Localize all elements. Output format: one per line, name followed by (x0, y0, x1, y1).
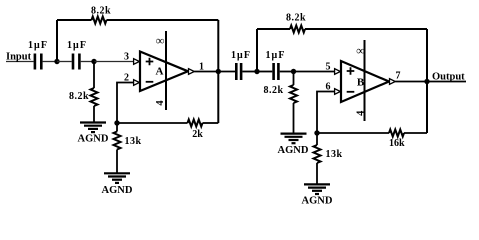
wire N3 to C4 (257, 71, 272, 73)
svg-text:8.2k: 8.2k (263, 85, 283, 96)
capacitor C2 1uF (72, 54, 81, 70)
op-amp A pin2 input arrow (134, 80, 140, 86)
svg-text:6: 6 (326, 82, 331, 93)
label Output (432, 72, 465, 83)
label C3 value 1uF (231, 50, 251, 61)
wire C3 to node N3 (242, 71, 257, 73)
wire N3 up to feedback rail (256, 29, 258, 72)
svg-text:13k: 13k (325, 149, 342, 160)
label 8.2k stage2 shunt (263, 85, 283, 96)
wire op-amp A output to stage2 (194, 71, 235, 73)
op-amp A plus input symbol (146, 58, 154, 66)
wire J1 to 13k (116, 123, 118, 132)
op-amp A output arrow pin1 (189, 69, 195, 75)
capacitor C4 1uF (272, 63, 279, 80)
wire J2 to 16k (317, 132, 389, 134)
label op-amp B pin 4 (355, 110, 366, 116)
op-amp A power line (165, 31, 167, 110)
svg-text:3: 3 (124, 52, 129, 63)
svg-text:AGND: AGND (302, 196, 333, 207)
svg-text:4: 4 (355, 110, 366, 116)
svg-text:B: B (357, 77, 365, 89)
label AGND stage1 shunt (78, 134, 109, 145)
svg-text:1μF: 1μF (28, 40, 48, 51)
label 13k stage1 (124, 136, 141, 147)
wire shunt 8.2k to ground (93, 106, 95, 123)
svg-text:16k: 16k (389, 138, 405, 149)
wire stage1 feedback right vertical (217, 20, 219, 123)
label AGND stage2 shunt (278, 145, 309, 156)
wire shunt 8.2k stage2 to ground (293, 103, 295, 134)
svg-text:13k: 13k (124, 136, 141, 147)
wire 16k to feedback vertical (404, 132, 427, 134)
label pin 1 (199, 61, 204, 72)
svg-text:5: 5 (326, 61, 331, 72)
wire N2 down to shunt resistor (93, 62, 95, 89)
wire N1 up to feedback rail (56, 20, 58, 62)
node stage1 output junction (216, 69, 221, 74)
resistor R 2k stage1 (188, 120, 203, 127)
node J1 junction (114, 120, 119, 125)
label pin 3 (124, 52, 129, 63)
wire stage1 top feedback rail left (57, 19, 92, 21)
svg-text:AGND: AGND (278, 145, 309, 156)
svg-text:8.2k: 8.2k (286, 12, 306, 23)
svg-text:AGND: AGND (78, 134, 109, 145)
capacitor C1 1uF (34, 54, 43, 70)
wire op-amp A pin2 loop (117, 83, 134, 124)
label op-amp B letter (357, 77, 365, 89)
label AGND stage1 13k (102, 185, 133, 196)
wire stage2 top feedback rail left (257, 28, 290, 30)
label 16k (389, 138, 405, 149)
wire 13k to ground (116, 150, 118, 174)
node N4 junction (291, 69, 296, 74)
capacitor C3 1uF (235, 63, 242, 80)
label pin 2 (124, 72, 129, 83)
label 8.2k stage1 feedback (91, 5, 111, 16)
svg-text:7: 7 (396, 71, 401, 82)
svg-text:8.2k: 8.2k (69, 91, 89, 102)
op-amp A minus input symbol (146, 81, 154, 83)
op-amp U1 A triangle (140, 52, 188, 92)
resistor R 13k stage1 (114, 132, 121, 150)
wire op-amp B pin6 loop (317, 92, 335, 134)
label op-amp A letter (156, 66, 164, 78)
resistor R shunt 8.2k stage1 (91, 88, 98, 106)
wire op-amp B output to Output port (395, 81, 466, 83)
resistor R 13k stage2 (314, 145, 321, 163)
svg-text:1μF: 1μF (265, 50, 285, 61)
label 8.2k stage1 shunt (69, 91, 89, 102)
op-amp A pin3 input arrow (134, 59, 140, 65)
svg-text:8.2k: 8.2k (91, 5, 111, 16)
ground AGND stage2 shunt (281, 134, 307, 144)
label pin 5 (326, 61, 331, 72)
node Input port wire (6, 61, 34, 63)
wire C4 to node N4 (280, 71, 294, 73)
svg-text:4: 4 (155, 100, 166, 106)
label 2k (192, 129, 203, 140)
wire 13k stage2 to ground (316, 163, 318, 184)
op-amp B pin5 input arrow (335, 69, 341, 75)
label Input (6, 52, 32, 63)
label C2 value 1uF (67, 40, 87, 51)
wire J1 to 2k (117, 122, 188, 124)
node N2 junction (91, 59, 96, 64)
node J2 junction (314, 130, 319, 135)
label pin 6 (326, 82, 331, 93)
wire stage2 top feedback rail right (305, 28, 427, 30)
op-amp U2 B triangle (341, 61, 389, 102)
ground AGND stage1 13k (104, 173, 130, 183)
svg-text:1μF: 1μF (67, 40, 87, 51)
svg-text:Output: Output (432, 72, 465, 83)
wire N4 down to shunt resistor (293, 72, 295, 86)
svg-text:Input: Input (6, 52, 32, 63)
wire N2 to op-amp pin 3 (94, 61, 134, 63)
wire stage1 top feedback rail right (107, 19, 219, 21)
svg-text:A: A (156, 66, 164, 78)
resistor R feedback 8.2k stage1 (92, 17, 107, 24)
node N1 junction (54, 59, 59, 64)
svg-text:AGND: AGND (102, 185, 133, 196)
label C1 value 1uF (28, 40, 48, 51)
label 13k stage2 (325, 149, 342, 160)
op-amp B output arrow pin7 (390, 79, 396, 85)
wire J2 to 13k (316, 133, 318, 145)
label op-amp A pin 4 (155, 100, 166, 106)
wire N4 to op-amp pin 5 (294, 71, 335, 73)
svg-text:2: 2 (124, 72, 129, 83)
node stage2 output junction (424, 79, 429, 84)
op-amp B minus input symbol (347, 91, 355, 93)
resistor R feedback 8.2k stage2 (290, 26, 305, 33)
resistor R 16k stage2 (389, 130, 404, 137)
label 8.2k stage2 feedback (286, 12, 306, 23)
ground AGND stage2 13k (304, 184, 330, 194)
node N3 junction (254, 69, 259, 74)
op-amp B pin6 input arrow (335, 89, 341, 95)
svg-text:2k: 2k (192, 129, 203, 140)
wire N1 to C2 (57, 61, 72, 63)
label op-amp B infinity (356, 44, 365, 58)
wire 2k to feedback vertical (203, 122, 219, 124)
op-amp B plus input symbol (347, 67, 355, 75)
svg-text:∞: ∞ (156, 34, 165, 48)
svg-text:1μF: 1μF (231, 50, 251, 61)
resistor R shunt 8.2k stage2 (290, 85, 297, 103)
label pin 7 (396, 71, 401, 82)
label AGND stage2 13k (302, 196, 333, 207)
wire stage2 feedback right vertical (426, 29, 428, 133)
label op-amp A infinity (156, 34, 165, 48)
op-amp B power line (364, 40, 366, 121)
svg-text:∞: ∞ (356, 44, 365, 58)
label C4 value 1uF (265, 50, 285, 61)
wire C1 to node N1 (43, 61, 57, 63)
wire C2 to node N2 (81, 61, 94, 63)
ground AGND stage1 shunt (80, 123, 106, 133)
